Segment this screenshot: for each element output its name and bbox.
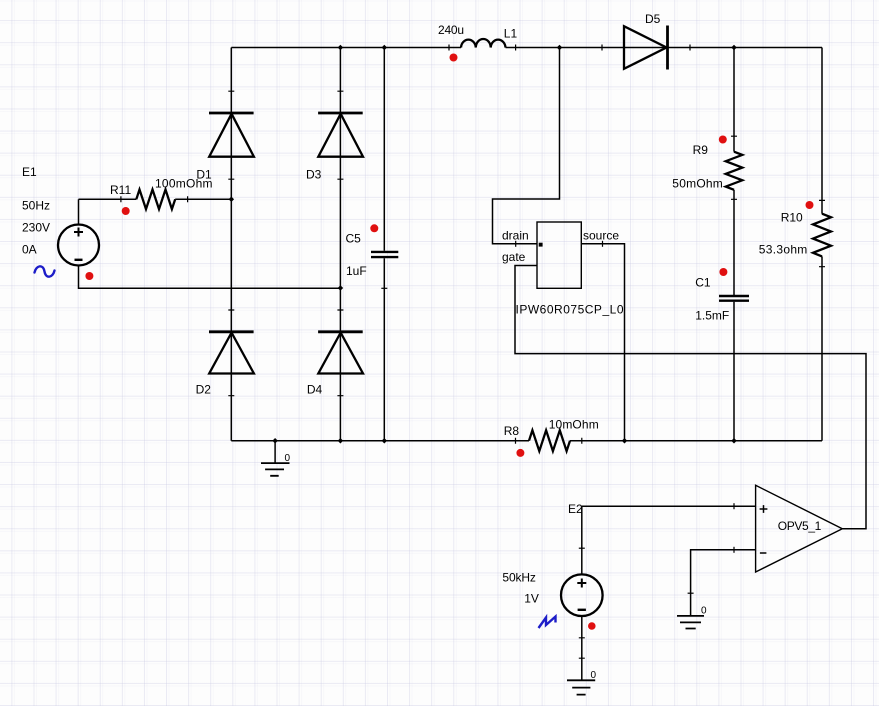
svg-text:D1: D1 bbox=[196, 167, 212, 181]
junction at C5 top bbox=[382, 45, 388, 51]
tick source pin bbox=[602, 241, 604, 247]
wire top bus left segment bbox=[231, 47, 461, 49]
junction at R9 top bbox=[731, 45, 737, 51]
wire bottom bus right bbox=[570, 440, 822, 442]
junction at drain top bbox=[557, 45, 563, 51]
probe dot at R8 bbox=[516, 449, 524, 457]
resistor R11 bbox=[121, 190, 188, 210]
ticks E2 bottom pin bbox=[579, 638, 585, 658]
wire C5 branch upper bbox=[383, 48, 385, 251]
resistor R8 bbox=[516, 430, 582, 451]
svg-text:R9: R9 bbox=[693, 143, 709, 157]
sine symbol of E1 bbox=[35, 266, 55, 276]
wire E2 to op-amp plus input bbox=[582, 505, 756, 507]
ground 0 (op-amp) bbox=[677, 616, 704, 629]
wire op-amp minus input bbox=[691, 550, 756, 616]
probe dot at E1 bottom bbox=[85, 272, 93, 280]
svg-text:E1: E1 bbox=[22, 165, 37, 179]
wire E2 top bbox=[581, 506, 583, 574]
svg-text:0: 0 bbox=[701, 606, 707, 617]
junction at E1-D3-D4 node bbox=[338, 285, 344, 291]
wire R9 branch top bbox=[733, 48, 735, 152]
capacitor C5 bbox=[371, 252, 398, 288]
probe dot at L1 bbox=[450, 54, 458, 62]
voltage source E2 bbox=[561, 574, 603, 616]
wire bottom bus left bbox=[231, 440, 529, 442]
diode D5 bbox=[602, 26, 690, 70]
svg-text:R8: R8 bbox=[504, 424, 520, 438]
diode D3 bbox=[318, 91, 363, 179]
junction at D4 bottom bbox=[338, 438, 344, 444]
svg-text:1uF: 1uF bbox=[346, 264, 367, 278]
diode D1 bbox=[209, 91, 254, 179]
wire R11 left bbox=[79, 198, 137, 200]
wire drain net bbox=[493, 48, 560, 244]
wire C1 bottom bbox=[733, 302, 735, 441]
tick op-amp plus pin bbox=[733, 503, 735, 509]
MOSFET IPW60R075CP_L0 body bbox=[537, 222, 581, 288]
diode D2 bbox=[209, 310, 254, 396]
junction at C5 bottom bbox=[382, 438, 388, 444]
svg-text:D5: D5 bbox=[645, 12, 661, 26]
probe dot at E2 bbox=[588, 622, 596, 630]
wire R10 branch top bbox=[821, 48, 823, 214]
svg-text:drain: drain bbox=[502, 228, 529, 242]
wire diode bridge left column bbox=[230, 48, 232, 441]
svg-text:240u: 240u bbox=[438, 23, 464, 37]
tick op-amp minus pin bbox=[733, 547, 735, 553]
svg-text:IPW60R075CP_L0: IPW60R075CP_L0 bbox=[516, 302, 624, 316]
resistor R9 bbox=[726, 136, 743, 199]
wire top bus right segment bbox=[506, 47, 823, 49]
probe dot at R10 bbox=[806, 201, 814, 209]
probe dot at R9 bbox=[719, 136, 727, 144]
svg-text:C5: C5 bbox=[346, 232, 362, 246]
tick minus ground pin bbox=[688, 592, 694, 594]
svg-text:0: 0 bbox=[591, 670, 597, 681]
wire E1 bottom bbox=[79, 266, 341, 289]
probe dot at R11 bbox=[122, 207, 130, 215]
svg-text:53.3ohm: 53.3ohm bbox=[759, 242, 808, 256]
op-amp OPV5_1 bbox=[756, 485, 843, 572]
ground 0 (bridge) bbox=[261, 441, 290, 476]
wire R11 right to node A bbox=[175, 198, 231, 200]
wire R9 to C1 bbox=[733, 190, 735, 295]
tick drain pin bbox=[515, 241, 517, 247]
svg-text:1V: 1V bbox=[524, 591, 539, 605]
svg-text:230V: 230V bbox=[22, 220, 50, 234]
ground 0 (E2) bbox=[567, 680, 595, 694]
wire source net bbox=[581, 244, 624, 441]
wire diode bridge right column bbox=[339, 48, 341, 441]
wire E2 bottom bbox=[581, 616, 583, 680]
svg-text:1.5mF: 1.5mF bbox=[695, 309, 729, 323]
svg-text:0: 0 bbox=[285, 453, 291, 464]
probe dot at C5 bbox=[370, 224, 378, 232]
svg-text:OPV5_1: OPV5_1 bbox=[778, 519, 822, 533]
svg-text:source: source bbox=[583, 228, 619, 242]
wire gate feedback net bbox=[515, 266, 866, 529]
svg-text:C1: C1 bbox=[695, 275, 711, 289]
svg-text:50mOhm: 50mOhm bbox=[672, 176, 723, 190]
svg-text:0A: 0A bbox=[22, 242, 37, 256]
junction at ground node bbox=[272, 438, 278, 444]
inductor L1 bbox=[449, 39, 516, 51]
wire E1 top to R11 row bbox=[78, 199, 80, 225]
resistor R10 bbox=[813, 200, 831, 266]
svg-text:D3: D3 bbox=[306, 167, 322, 181]
svg-text:R10: R10 bbox=[781, 211, 803, 225]
wire C5 branch lower bbox=[383, 258, 385, 441]
svg-text:E2: E2 bbox=[568, 502, 583, 516]
capacitor C1 bbox=[719, 296, 749, 301]
junction at C1 bottom bbox=[731, 438, 737, 444]
tick E2 top pin bbox=[579, 547, 585, 549]
svg-text:gate: gate bbox=[502, 250, 526, 264]
wire R10 bottom bbox=[821, 256, 823, 440]
svg-text:D4: D4 bbox=[307, 382, 323, 396]
svg-text:10mOhm: 10mOhm bbox=[549, 417, 599, 431]
voltage source E1 bbox=[58, 225, 99, 266]
svg-text:R11: R11 bbox=[110, 183, 131, 197]
sawtooth symbol of E2 bbox=[539, 617, 556, 629]
junction at D3 top bbox=[338, 45, 344, 51]
probe dot at C1 bbox=[719, 268, 727, 276]
svg-text:L1: L1 bbox=[504, 27, 518, 41]
svg-text:50kHz: 50kHz bbox=[502, 571, 536, 585]
junction at source bottom bbox=[622, 438, 628, 444]
svg-text:D2: D2 bbox=[196, 382, 212, 396]
junction at R11-D1-D2 node bbox=[229, 197, 235, 203]
svg-text:50Hz: 50Hz bbox=[22, 199, 50, 213]
diode D4 bbox=[318, 310, 363, 396]
